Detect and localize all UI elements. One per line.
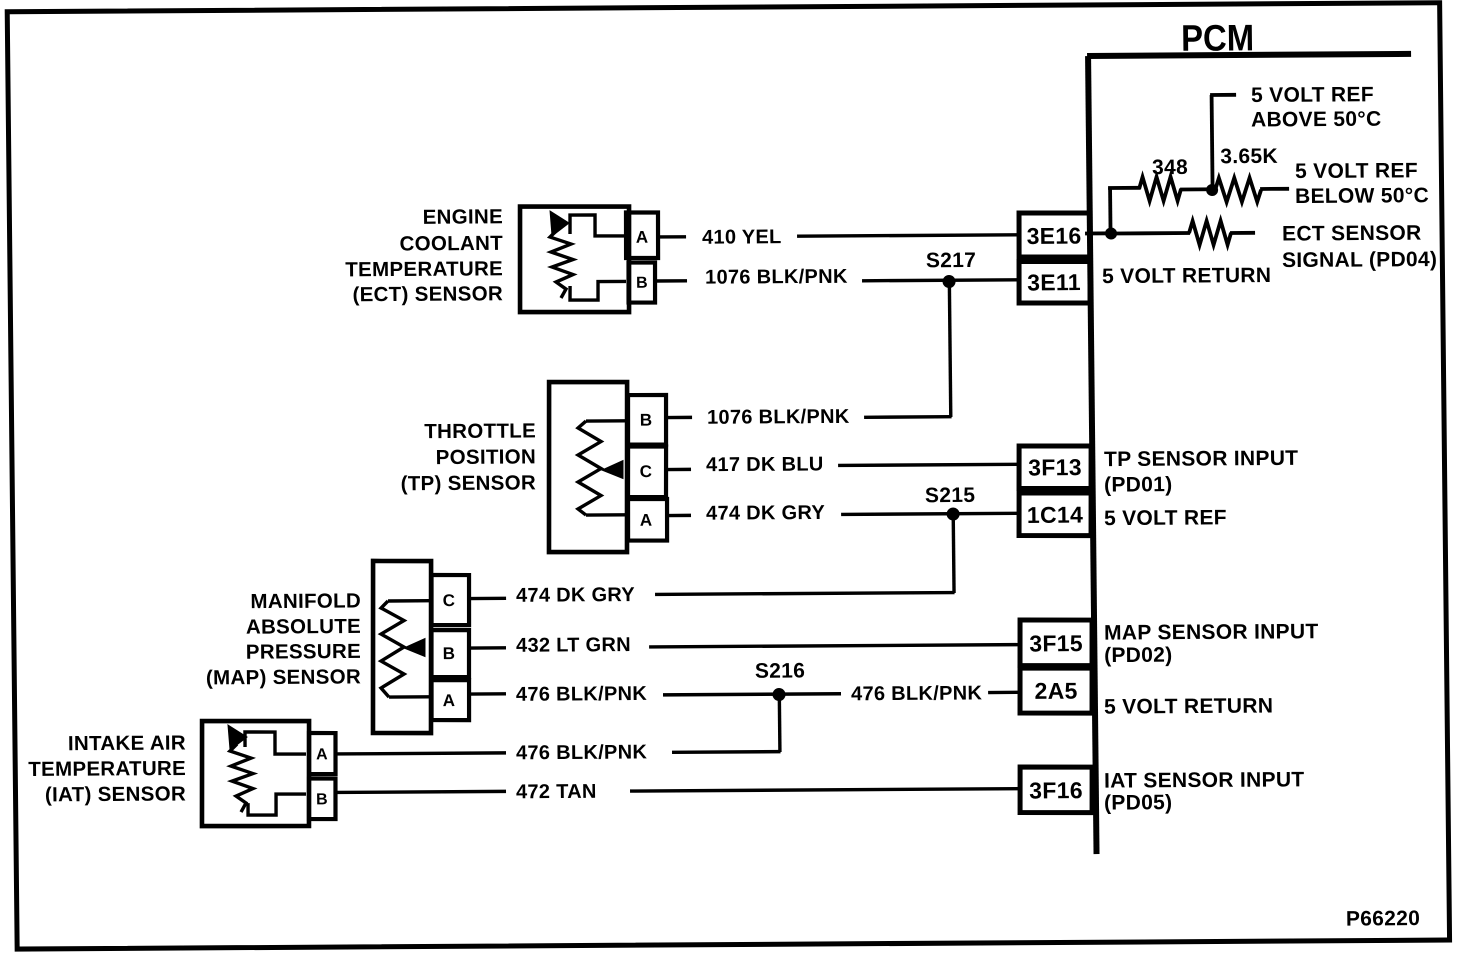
svg-text:3F13: 3F13	[1028, 454, 1082, 480]
svg-text:5 VOLT REF: 5 VOLT REF	[1251, 83, 1374, 107]
svg-text:476 BLK/PNK: 476 BLK/PNK	[516, 683, 648, 706]
wire MAP 474 to S215 leg	[655, 593, 955, 595]
wire S215 down leg	[952, 514, 956, 593]
svg-text:(PD02): (PD02)	[1104, 644, 1173, 667]
MAP pin B box	[431, 630, 470, 678]
svg-text:(MAP) SENSOR: (MAP) SENSOR	[206, 665, 361, 689]
MAP pin A stub	[469, 692, 506, 696]
wire 417 DK BLU	[838, 464, 1020, 465]
svg-text:THROTTLE: THROTTLE	[424, 419, 536, 443]
wire 474 DK GRY to 1C14	[841, 513, 1020, 514]
MAP pin C stub	[469, 597, 506, 601]
wire 410 YEL	[797, 235, 1020, 236]
svg-text:COOLANT: COOLANT	[399, 232, 503, 256]
resistor ECT input	[1189, 221, 1231, 245]
TP pot top lead	[586, 419, 626, 423]
wire S216 down leg	[778, 695, 782, 753]
svg-text:A: A	[443, 691, 456, 710]
PCM terminal box 3F15	[1020, 620, 1093, 666]
MAP sensor body	[371, 561, 433, 734]
wire 3E16 to junction	[1085, 231, 1114, 235]
wire 3.65K out	[1260, 187, 1289, 191]
svg-text:IAT SENSOR INPUT: IAT SENSOR INPUT	[1104, 768, 1305, 792]
TP wiper arrow	[602, 461, 623, 479]
svg-text:410 YEL: 410 YEL	[702, 226, 782, 249]
svg-text:432 LT GRN: 432 LT GRN	[516, 634, 631, 657]
svg-text:(PD05): (PD05)	[1104, 791, 1173, 814]
PCM terminal box 3E11	[1019, 261, 1091, 303]
splice S217	[942, 275, 955, 288]
IAT internal outline upper	[245, 732, 306, 755]
ECT internal outline upper	[570, 215, 626, 237]
PCM left boundary line	[1088, 56, 1096, 854]
svg-text:5 VOLT REF: 5 VOLT REF	[1295, 159, 1418, 183]
splice S215	[947, 507, 960, 520]
svg-text:POSITION: POSITION	[436, 445, 537, 469]
svg-text:2A5: 2A5	[1034, 678, 1077, 704]
IAT pin B box	[309, 778, 336, 819]
svg-text:B: B	[443, 644, 456, 663]
TP potentiometer element	[577, 421, 602, 515]
splice S216	[772, 688, 785, 701]
svg-text:S217: S217	[926, 249, 976, 272]
svg-text:TP SENSOR INPUT: TP SENSOR INPUT	[1104, 447, 1299, 471]
svg-text:A: A	[640, 511, 653, 530]
wire 348 to junction	[1180, 187, 1214, 191]
ECT pin A stub	[658, 235, 686, 239]
svg-text:S216: S216	[755, 659, 805, 682]
svg-text:ABOVE 50°C: ABOVE 50°C	[1251, 108, 1382, 132]
IAT internal outline lower	[248, 794, 306, 815]
wire 472 TAN to 3F16	[630, 789, 1021, 791]
ECT thermistor arrow	[550, 211, 569, 236]
MAP pin C box	[431, 575, 470, 626]
svg-text:TEMPERATURE: TEMPERATURE	[28, 757, 186, 781]
PCM terminal box 3F16	[1020, 767, 1093, 813]
ECT thermistor element	[550, 230, 573, 298]
wire 432 LT GRN	[649, 645, 1021, 647]
ECT sensor body	[519, 206, 630, 313]
ECT pin B box	[628, 262, 655, 302]
PCM top line	[1087, 54, 1411, 56]
IAT pin A box	[309, 733, 336, 774]
MAP pin A box	[431, 680, 469, 721]
svg-text:A: A	[636, 228, 649, 247]
PCM terminal box 3E16	[1019, 213, 1091, 258]
wire to resistor 348	[1108, 186, 1140, 190]
TP pin A box	[628, 499, 668, 541]
wire 1076 BLK/PNK to S217	[862, 278, 1020, 282]
MAP wiper arrow	[404, 639, 425, 657]
svg-text:3E16: 3E16	[1026, 223, 1081, 249]
wire junction to input resistor	[1114, 231, 1190, 235]
IAT thermistor arrow	[228, 725, 247, 750]
wire input resistor out	[1230, 231, 1255, 235]
svg-text:SIGNAL (PD04): SIGNAL (PD04)	[1282, 248, 1437, 272]
TP pin B box	[628, 395, 667, 445]
svg-text:P66220: P66220	[1346, 907, 1420, 930]
svg-text:3F15: 3F15	[1029, 630, 1083, 656]
svg-text:ENGINE: ENGINE	[423, 205, 504, 229]
resistor 3.65K	[1215, 178, 1261, 202]
wire junction to 5V ref above	[1212, 95, 1213, 190]
TP pot bottom lead	[586, 513, 626, 517]
svg-text:C: C	[443, 591, 456, 610]
TP pin A stub	[667, 514, 691, 518]
wire S217 down leg	[949, 282, 950, 418]
svg-text:ECT SENSOR: ECT SENSOR	[1282, 222, 1422, 246]
resistor 348	[1139, 177, 1181, 201]
PCM terminal box 1C14	[1019, 493, 1092, 536]
stub 5V ref above	[1210, 93, 1236, 97]
svg-text:A: A	[316, 746, 328, 763]
svg-text:1076 BLK/PNK: 1076 BLK/PNK	[705, 266, 848, 289]
svg-text:3.65K: 3.65K	[1220, 145, 1278, 168]
junction node (3E16)	[1105, 227, 1117, 239]
svg-text:B: B	[636, 275, 648, 292]
MAP pin B stub	[469, 646, 506, 650]
svg-text:476 BLK/PNK: 476 BLK/PNK	[516, 741, 648, 764]
wire TP 1076 to S217 leg	[864, 415, 952, 419]
svg-text:BELOW 50°C: BELOW 50°C	[1295, 184, 1429, 208]
ECT pin A box	[626, 212, 659, 258]
MAP pot bottom lead	[389, 695, 430, 699]
svg-text:MAP SENSOR INPUT: MAP SENSOR INPUT	[1104, 620, 1319, 644]
junction node (divider)	[1206, 184, 1218, 196]
svg-text:INTAKE AIR: INTAKE AIR	[68, 731, 186, 755]
wire junction up	[1108, 188, 1112, 234]
svg-text:B: B	[640, 411, 653, 430]
svg-text:S215: S215	[925, 484, 976, 507]
svg-text:476 BLK/PNK: 476 BLK/PNK	[851, 682, 983, 705]
MAP potentiometer element	[380, 601, 405, 697]
svg-text:ABSOLUTE: ABSOLUTE	[246, 615, 361, 639]
MAP pot top lead	[388, 599, 430, 603]
svg-text:(PD01): (PD01)	[1104, 473, 1173, 496]
svg-text:PRESSURE: PRESSURE	[246, 640, 361, 664]
svg-text:B: B	[316, 791, 328, 808]
TP pin C stub	[666, 468, 691, 472]
svg-text:474 DK GRY: 474 DK GRY	[516, 584, 636, 607]
IAT thermistor element	[230, 744, 254, 812]
IAT sensor body	[201, 720, 310, 826]
svg-text:474 DK GRY: 474 DK GRY	[706, 502, 826, 525]
svg-text:5 VOLT RETURN: 5 VOLT RETURN	[1104, 695, 1273, 719]
svg-text:5 VOLT RETURN: 5 VOLT RETURN	[1102, 264, 1271, 288]
svg-text:1076 BLK/PNK: 1076 BLK/PNK	[707, 406, 850, 429]
svg-text:(TP) SENSOR: (TP) SENSOR	[401, 471, 537, 495]
PCM terminal box 3F13	[1019, 446, 1092, 489]
svg-text:(ECT) SENSOR: (ECT) SENSOR	[352, 282, 503, 306]
wire 476 BLK/PNK to 2A5	[988, 691, 1021, 695]
TP pin C box	[627, 446, 666, 497]
PCM terminal box 2A5	[1020, 668, 1093, 714]
wire 476 BLK/PNK to S216 leg	[672, 750, 781, 754]
svg-text:472 TAN: 472 TAN	[516, 781, 597, 804]
TP sensor body	[547, 382, 629, 553]
svg-text:3E11: 3E11	[1027, 269, 1081, 295]
svg-text:417 DK BLU: 417 DK BLU	[706, 453, 824, 476]
ECT pin B stub	[655, 279, 687, 283]
svg-text:5 VOLT REF: 5 VOLT REF	[1104, 506, 1227, 530]
wire 476 BLK/PNK to S216	[663, 694, 841, 695]
ECT internal outline lower	[570, 281, 626, 300]
svg-text:(IAT) SENSOR: (IAT) SENSOR	[45, 782, 186, 806]
wire IAT B to label	[335, 791, 506, 792]
wire IAT A to label	[335, 753, 506, 754]
svg-text:3F16: 3F16	[1029, 777, 1083, 803]
svg-text:348: 348	[1152, 156, 1188, 179]
svg-text:C: C	[640, 462, 653, 481]
TP pin B stub	[666, 416, 692, 420]
svg-text:TEMPERATURE: TEMPERATURE	[345, 257, 503, 281]
svg-text:MANIFOLD: MANIFOLD	[250, 589, 361, 613]
svg-text:1C14: 1C14	[1027, 502, 1083, 528]
